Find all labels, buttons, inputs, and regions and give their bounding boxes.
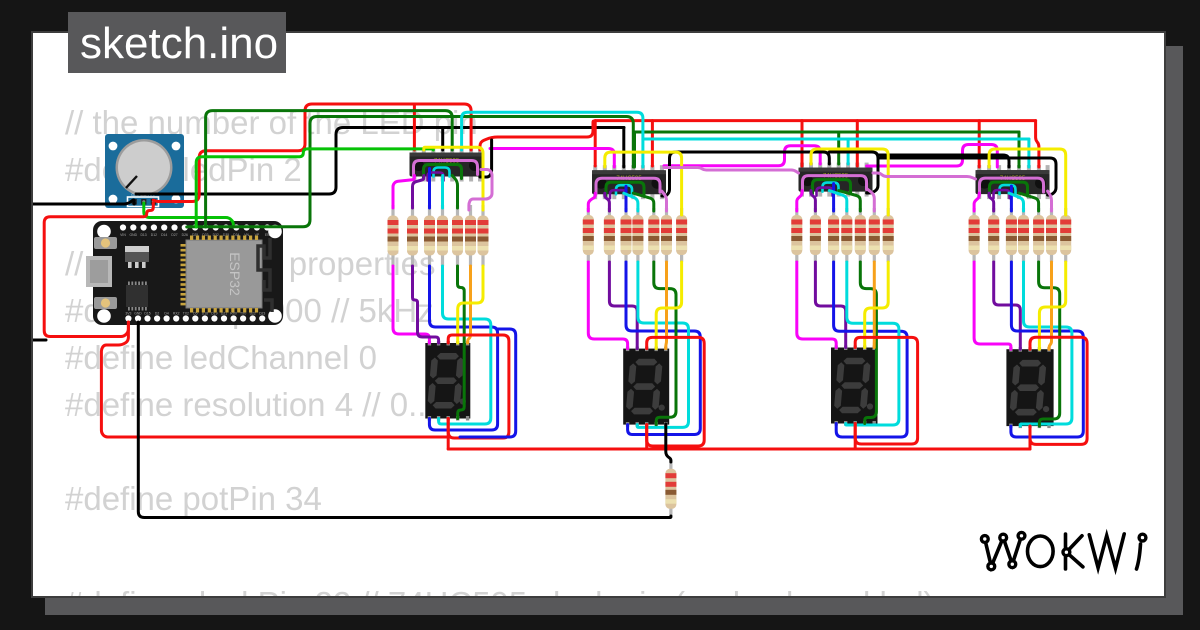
svg-text:D14: D14 — [161, 233, 167, 237]
svg-text:EN: EN — [265, 233, 270, 237]
svg-text:D23: D23 — [259, 312, 265, 316]
svg-text:D15: D15 — [144, 312, 150, 316]
svg-text:D4: D4 — [164, 312, 168, 316]
svg-text:GND: GND — [130, 233, 138, 237]
svg-text:#define potPin 34: #define potPin 34 — [65, 480, 322, 517]
svg-text:D13: D13 — [140, 233, 146, 237]
svg-text:3V3: 3V3 — [125, 312, 131, 316]
svg-text:D27: D27 — [171, 233, 177, 237]
svg-text:sketch.ino: sketch.ino — [80, 19, 278, 68]
svg-text:D12: D12 — [151, 233, 157, 237]
svg-text:D2: D2 — [155, 312, 159, 316]
svg-text:TX2: TX2 — [183, 312, 189, 316]
svg-text:VIN: VIN — [120, 233, 126, 237]
svg-text:GND: GND — [134, 312, 142, 316]
svg-text:#define resolution 4 // 0..15: #define resolution 4 // 0..15 — [65, 386, 463, 423]
svg-text:D26: D26 — [182, 233, 188, 237]
svg-text:RX2: RX2 — [173, 312, 180, 316]
svg-text:ESP32: ESP32 — [227, 252, 243, 296]
